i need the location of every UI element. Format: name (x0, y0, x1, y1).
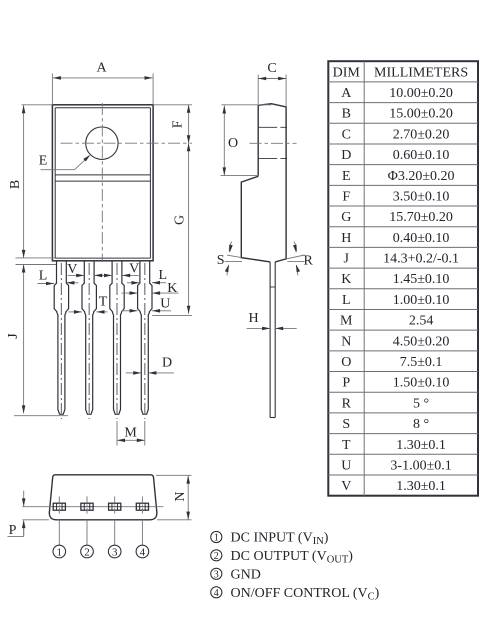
svg-text:Φ3.20±0.20: Φ3.20±0.20 (388, 169, 455, 184)
svg-text:V: V (341, 479, 351, 494)
svg-text:4.50±0.20: 4.50±0.20 (393, 334, 450, 349)
svg-text:5 °: 5 ° (413, 396, 429, 411)
label F (171, 120, 186, 128)
svg-text:L: L (159, 268, 168, 283)
label C (267, 61, 276, 76)
svg-text:N: N (173, 491, 188, 501)
svg-text:7.5±0.1: 7.5±0.1 (400, 355, 443, 370)
dim O dimension line (223, 106, 227, 176)
side view leg step tick (270, 286, 275, 288)
svg-text:F: F (171, 120, 186, 128)
svg-text:E: E (342, 169, 351, 184)
pin 1 number circle (53, 545, 66, 558)
svg-text:MILLIMETERS: MILLIMETERS (374, 65, 468, 80)
dim L left arrow (38, 282, 55, 286)
label B (8, 180, 23, 189)
pin 4 function: ON/OFF CONTROL (211, 586, 380, 603)
side view hole hidden edges (dashed) (258, 127, 287, 158)
svg-text:K: K (167, 281, 177, 296)
dim G dimension line (187, 143, 191, 314)
angle S horizontal reference line (225, 261, 242, 263)
bottom view pin midline (22, 506, 163, 508)
pin 1 lead (front view) (54, 261, 68, 419)
pin 4 lead (front view) (138, 261, 152, 419)
pin 2 leader line (86, 520, 88, 545)
svg-text:2.70±0.20: 2.70±0.20 (393, 127, 450, 142)
dim B extension line bottom (16, 257, 56, 259)
svg-text:V: V (129, 262, 139, 277)
label O (228, 136, 238, 151)
svg-text:3: 3 (112, 546, 118, 558)
svg-text:D: D (341, 148, 351, 163)
label L left (39, 269, 48, 284)
dim K right arrow (152, 291, 179, 295)
dim D left arrow (126, 371, 142, 375)
pin 3 leader line (114, 520, 116, 545)
svg-text:2: 2 (84, 546, 90, 558)
svg-text:1.50±0.10: 1.50±0.10 (393, 376, 450, 391)
pin 1 pad (bottom view) (53, 496, 65, 513)
svg-text:V: V (67, 262, 77, 277)
dimension table text (333, 65, 469, 494)
side view body outline (241, 104, 286, 262)
svg-text:14.3+0.2/-0.1: 14.3+0.2/-0.1 (383, 252, 459, 267)
pin 2 lead (front view) (82, 261, 96, 419)
label R (304, 253, 314, 268)
label D (162, 356, 172, 371)
svg-text:L: L (39, 269, 48, 284)
body vertical centerline (101, 103, 103, 262)
label K (167, 281, 177, 296)
svg-text:N: N (341, 334, 351, 349)
svg-text:1.30±0.1: 1.30±0.1 (396, 479, 446, 494)
pin 3 number circle (108, 545, 121, 558)
front view tab/body divider lines (55, 175, 150, 181)
angle S upper arc arrow (228, 242, 233, 254)
svg-text:C: C (267, 61, 276, 76)
svg-text:A: A (341, 86, 352, 101)
label V second (129, 262, 139, 277)
dim V1 upper arrow (68, 274, 85, 278)
svg-text:S: S (342, 417, 350, 432)
side view hole centerline (250, 142, 297, 144)
svg-text:E: E (39, 154, 48, 169)
dimension table grid (328, 61, 478, 496)
dim U left arrow (122, 309, 138, 313)
svg-text:R: R (304, 253, 314, 268)
dim V2 lower arrow (127, 281, 139, 285)
angle R upper arc arrow (293, 242, 298, 254)
dim V1 lower arrow (66, 281, 78, 285)
svg-text:M: M (340, 314, 353, 329)
dim P down arrow (22, 491, 26, 507)
svg-text:0.60±0.10: 0.60±0.10 (393, 148, 450, 163)
angle S slant extension line (227, 255, 241, 258)
svg-text:G: G (341, 210, 351, 225)
hole horizontal centerline (61, 142, 193, 144)
dim F dimension line (187, 105, 191, 143)
svg-text:4: 4 (140, 546, 146, 558)
svg-text:15.70±0.20: 15.70±0.20 (389, 210, 453, 225)
label G (173, 215, 188, 225)
dim N dimension line (186, 476, 190, 520)
label E (39, 154, 48, 169)
pin 2 pad (bottom view) (81, 496, 93, 513)
label M (124, 426, 137, 441)
dim arrows between pin2 and pin3 necks (94, 274, 112, 278)
svg-text:1.45±0.10: 1.45±0.10 (393, 272, 450, 287)
svg-text:M: M (124, 426, 137, 441)
dim M dimension line (117, 439, 145, 443)
pin 2 number circle (81, 545, 94, 558)
svg-text:B: B (342, 107, 351, 122)
svg-text:P: P (9, 523, 17, 538)
svg-text:GND: GND (231, 567, 261, 582)
pin 4 leader line (141, 520, 143, 545)
label J (6, 333, 21, 339)
pin 2 function: DC OUTPUT (211, 549, 354, 566)
svg-text:1: 1 (214, 533, 219, 544)
label S (217, 253, 225, 268)
dim C dimension line (258, 77, 286, 81)
dim M extension lines (117, 421, 145, 446)
svg-text:J: J (6, 333, 21, 339)
svg-text:F: F (342, 189, 350, 204)
svg-text:H: H (341, 231, 351, 246)
dim J extension line top (16, 264, 57, 266)
svg-text:2.54: 2.54 (409, 314, 434, 329)
svg-text:T: T (342, 438, 351, 453)
pin 3 pad (bottom view) (109, 496, 121, 513)
svg-text:3-1.00±0.1: 3-1.00±0.1 (390, 458, 451, 473)
svg-text:J: J (344, 252, 350, 267)
dim H right arrow (275, 327, 297, 331)
svg-text:A: A (96, 61, 107, 76)
front view body outline (outer) (52, 105, 153, 261)
dim T right arrow (97, 310, 108, 314)
bottom view body outline (49, 475, 157, 520)
svg-text:U: U (341, 458, 351, 473)
side view pin leg (270, 262, 275, 418)
svg-text:3.50±0.10: 3.50±0.10 (393, 189, 450, 204)
dim L right arrow (152, 281, 166, 285)
svg-text:1: 1 (57, 546, 63, 558)
dim J extension line bottom (14, 415, 68, 417)
svg-text:K: K (341, 272, 351, 287)
dim U right arrow (152, 309, 171, 313)
svg-text:R: R (342, 396, 352, 411)
svg-text:O: O (228, 136, 238, 151)
svg-text:DIM: DIM (333, 65, 361, 80)
label N (173, 491, 188, 501)
svg-text:B: B (8, 180, 23, 189)
label L right (159, 268, 168, 283)
label H (248, 311, 258, 326)
svg-text:10.00±0.20: 10.00±0.20 (389, 86, 453, 101)
dim C extension lines (258, 75, 286, 107)
svg-text:L: L (342, 293, 351, 308)
dim A extension lines (52, 74, 153, 105)
dim J dimension line (22, 265, 26, 414)
dim T left arrow (68, 310, 82, 314)
dim H left arrow (247, 327, 271, 331)
svg-text:1.00±0.10: 1.00±0.10 (393, 293, 450, 308)
svg-text:C: C (342, 127, 351, 142)
svg-text:H: H (248, 311, 258, 326)
pin 3 lead (front view) (110, 261, 124, 419)
svg-text:3: 3 (214, 569, 219, 580)
label U (160, 297, 170, 312)
mounting hole (dia E) (86, 127, 118, 159)
dim K left arrow (122, 291, 138, 295)
svg-text:G: G (173, 215, 188, 225)
svg-text:D: D (162, 356, 172, 371)
svg-text:1.30±0.1: 1.30±0.1 (396, 438, 446, 453)
label P with leader (8, 523, 24, 538)
dim G extension line bottom (152, 315, 192, 317)
svg-text:U: U (160, 297, 170, 312)
dim N extension lines (22, 475, 191, 520)
dim D right arrow (148, 371, 174, 375)
svg-text:P: P (342, 376, 350, 391)
svg-text:0.40±0.10: 0.40±0.10 (393, 231, 450, 246)
angle R slant extension line (286, 255, 304, 259)
svg-text:8 °: 8 ° (413, 417, 429, 432)
pin 4 pad (bottom view) (136, 496, 148, 513)
body top edge extension line (22, 104, 193, 106)
angle S lower arc arrow (225, 264, 231, 276)
label V first (67, 262, 77, 277)
pin 1 leader line (58, 520, 60, 545)
angle R lower arc arrow (294, 264, 300, 276)
svg-text:4: 4 (214, 588, 219, 599)
label A (96, 61, 107, 76)
leader E to hole (41, 153, 92, 169)
dim P up arrow (22, 520, 26, 536)
pin 4 number circle (136, 545, 149, 558)
pin 3 function: GND (211, 567, 261, 582)
dim A dimension line (53, 76, 153, 80)
dim V2 upper arrow (122, 274, 139, 278)
dim B dimension line (22, 105, 26, 258)
svg-text:15.00±0.20: 15.00±0.20 (389, 107, 453, 122)
pin 1 function: DC INPUT (211, 531, 329, 548)
svg-text:T: T (99, 295, 108, 310)
svg-text:ON/OFF CONTROL (VC): ON/OFF CONTROL (VC) (231, 586, 380, 603)
dim O extension lines (221, 105, 272, 176)
label T (99, 295, 108, 310)
front view body inner border lines (55, 108, 150, 258)
svg-text:S: S (217, 253, 225, 268)
angle R horizontal reference line (287, 261, 304, 263)
svg-text:2: 2 (214, 551, 219, 562)
svg-text:O: O (341, 355, 351, 370)
